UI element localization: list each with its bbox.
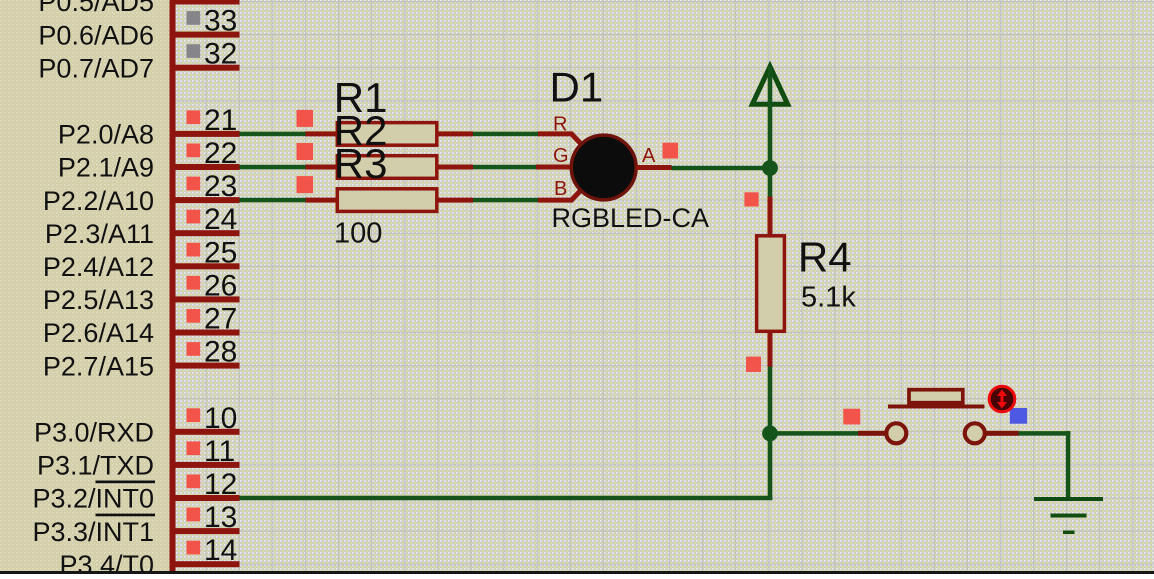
svg-text:P3.1/TXD: P3.1/TXD bbox=[37, 451, 154, 481]
pin stub 23 bbox=[172, 197, 240, 203]
junction square at resistor input 21 bbox=[297, 110, 314, 127]
svg-text:P3.4/T0: P3.4/T0 bbox=[59, 550, 154, 574]
svg-text:R: R bbox=[553, 114, 567, 136]
microcontroller U1 body (left edge of 8051, partially off-canvas) bbox=[0, 0, 176, 574]
svg-text:R3: R3 bbox=[334, 140, 388, 187]
pin 23 marker square bbox=[187, 177, 201, 191]
svg-text:P3.2/INT0: P3.2/INT0 bbox=[32, 484, 154, 514]
wire down to ground bbox=[1066, 431, 1071, 499]
pin stub 28 bbox=[172, 363, 240, 369]
junction square at R4 top bbox=[744, 192, 758, 206]
wire 21 stub to resistor bbox=[240, 132, 306, 137]
pin 21 marker square bbox=[187, 110, 201, 124]
button cap bbox=[909, 390, 963, 403]
resistor R2 body bbox=[337, 156, 437, 179]
svg-text:P2.7/A15: P2.7/A15 bbox=[43, 351, 154, 381]
svg-text:28: 28 bbox=[204, 336, 237, 369]
pin 27 marker square bbox=[187, 309, 201, 323]
wire to P3.2/INT0 bbox=[240, 496, 773, 501]
pin stub 24 bbox=[172, 230, 240, 236]
LED D1 body bbox=[571, 135, 636, 200]
resistor R4 top pin bbox=[768, 197, 773, 237]
resistor R1 left pin bbox=[306, 131, 338, 136]
svg-text:RGBLED-CA: RGBLED-CA bbox=[552, 203, 710, 233]
button actuator bar bbox=[888, 405, 985, 409]
svg-text:P0.7/AD7: P0.7/AD7 bbox=[38, 53, 154, 83]
pin 25 marker square bbox=[187, 243, 201, 257]
svg-text:10: 10 bbox=[204, 402, 237, 435]
button toggle icon bbox=[989, 386, 1015, 412]
pin 14 marker square bbox=[187, 541, 201, 555]
svg-text:P2.3/A11: P2.3/A11 bbox=[45, 219, 154, 249]
svg-text:21: 21 bbox=[204, 104, 237, 137]
junction square at R4 bottom bbox=[746, 357, 761, 372]
svg-text:P0.6/AD6: P0.6/AD6 bbox=[38, 20, 154, 50]
svg-text:R4: R4 bbox=[798, 234, 852, 281]
button left pin bbox=[858, 431, 885, 436]
svg-text:13: 13 bbox=[204, 501, 237, 534]
wire button to ground corner bbox=[1019, 431, 1071, 436]
pin stub 14 bbox=[172, 561, 240, 567]
pin 32 marker square bbox=[187, 44, 201, 58]
svg-text:A: A bbox=[642, 145, 656, 167]
pin 24 marker square bbox=[187, 210, 201, 224]
svg-text:D1: D1 bbox=[550, 64, 604, 111]
svg-text:25: 25 bbox=[204, 236, 237, 269]
pin stub 21 bbox=[172, 131, 240, 137]
wire R4 to button node bbox=[768, 367, 773, 434]
resistor R4 bottom pin bbox=[768, 333, 773, 367]
resistor R1 right pin bbox=[439, 131, 474, 136]
junction square at button left bbox=[843, 409, 860, 425]
ground symbol bbox=[1034, 497, 1103, 534]
resistor R3 body bbox=[337, 189, 437, 212]
resistor R1 body bbox=[337, 123, 437, 146]
svg-text:P3.3/INT1: P3.3/INT1 bbox=[32, 517, 154, 547]
LED D1 A output pin bbox=[636, 165, 672, 170]
window bottom border bbox=[0, 571, 1154, 574]
svg-text:100: 100 bbox=[334, 218, 382, 250]
wire node to button left contact bbox=[770, 431, 858, 436]
overline for P3.2/INT0 bbox=[96, 481, 156, 484]
button right contact circle bbox=[965, 423, 985, 443]
resistor R2 right pin bbox=[439, 165, 474, 170]
svg-text:12: 12 bbox=[204, 468, 237, 501]
pin stub 11 bbox=[172, 462, 240, 468]
svg-text:P2.1/A9: P2.1/A9 bbox=[58, 153, 154, 183]
wire R1 to LED bbox=[473, 132, 538, 137]
svg-text:P2.5/A13: P2.5/A13 bbox=[43, 285, 154, 315]
wire button node down bbox=[768, 433, 773, 500]
svg-text:P2.4/A12: P2.4/A12 bbox=[43, 252, 154, 282]
button right pin bbox=[985, 431, 1019, 436]
resistor R3 right pin bbox=[439, 198, 474, 203]
blue marker square bbox=[1010, 408, 1027, 424]
svg-text:P0.5/AD5: P0.5/AD5 bbox=[38, 0, 154, 17]
wire power to junction bbox=[768, 67, 773, 169]
pin 13 marker square bbox=[187, 508, 201, 522]
svg-text:24: 24 bbox=[204, 203, 237, 236]
wire LED anode to rail bbox=[672, 166, 771, 171]
pin stub 26 bbox=[172, 296, 240, 302]
pin stub 10 bbox=[172, 429, 240, 435]
svg-text:11: 11 bbox=[204, 435, 235, 468]
button left contact circle bbox=[886, 423, 906, 443]
pin stub 25 bbox=[172, 263, 240, 269]
LED D1 B input leg bbox=[538, 191, 581, 201]
resistor R2 left pin bbox=[306, 165, 338, 170]
pin 28 marker square bbox=[187, 342, 201, 356]
pin stub 27 bbox=[172, 330, 240, 336]
svg-text:B: B bbox=[554, 178, 567, 200]
svg-text:5.1k: 5.1k bbox=[801, 282, 856, 314]
power symbol (VCC arrow) bbox=[752, 67, 787, 105]
wire 23 stub to resistor bbox=[240, 198, 306, 203]
svg-text:26: 26 bbox=[204, 269, 237, 302]
pin 10 marker square bbox=[187, 408, 201, 422]
pin stub 32 bbox=[172, 65, 240, 71]
pin 11 marker square bbox=[187, 441, 201, 455]
wire 22 stub to resistor bbox=[240, 165, 306, 170]
pin 12 marker square bbox=[187, 475, 201, 489]
resistor R4 body bbox=[757, 236, 785, 331]
svg-text:P2.0/A8: P2.0/A8 bbox=[58, 120, 154, 150]
wire junction down to R4 bbox=[768, 168, 773, 197]
junction square at LED anode bbox=[663, 143, 679, 159]
svg-text:22: 22 bbox=[204, 137, 237, 170]
svg-text:P2.2/A10: P2.2/A10 bbox=[43, 186, 154, 216]
pin stub 12 bbox=[172, 495, 240, 501]
pin 33 marker square bbox=[187, 11, 201, 25]
pin stub 22 bbox=[172, 164, 240, 170]
svg-text:P3.0/RXD: P3.0/RXD bbox=[34, 418, 154, 448]
svg-text:P2.6/A14: P2.6/A14 bbox=[43, 318, 154, 348]
wire R3 to LED bbox=[473, 198, 538, 203]
junction dot at anode node bbox=[762, 160, 778, 176]
LED D1 G input leg bbox=[536, 165, 570, 170]
pin stub 34 bbox=[172, 0, 240, 5]
svg-text:14: 14 bbox=[204, 534, 237, 567]
wire R2 to LED bbox=[473, 165, 538, 170]
pin stub 13 bbox=[172, 528, 240, 534]
svg-text:32: 32 bbox=[204, 38, 237, 71]
overline for P3.3/INT1 bbox=[96, 514, 156, 517]
svg-text:G: G bbox=[553, 145, 569, 167]
resistor R3 left pin bbox=[306, 198, 338, 203]
pin 22 marker square bbox=[187, 144, 201, 158]
LED D1 R input leg bbox=[538, 134, 581, 144]
svg-text:23: 23 bbox=[204, 170, 237, 203]
junction square at resistor input 23 bbox=[297, 176, 314, 193]
junction dot at button node bbox=[762, 426, 778, 442]
pin 26 marker square bbox=[187, 276, 201, 290]
svg-text:33: 33 bbox=[204, 5, 237, 38]
junction square at resistor input 22 bbox=[297, 143, 314, 160]
pin stub 33 bbox=[172, 32, 240, 38]
svg-text:27: 27 bbox=[204, 303, 237, 336]
